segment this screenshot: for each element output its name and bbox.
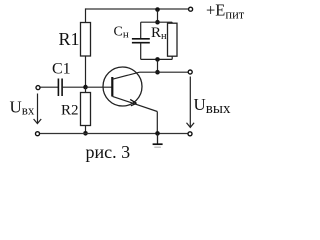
node: base junction bbox=[83, 85, 88, 90]
transistor Q1 base bar bbox=[111, 77, 113, 97]
wire: Cn branch bottom bbox=[140, 43, 142, 60]
wire: C1 to base node bbox=[62, 86, 85, 88]
wire: R2 bottom lead bbox=[85, 126, 87, 134]
svg-text:C1: C1 bbox=[52, 61, 71, 78]
wire: load block top rail bbox=[141, 21, 173, 23]
arrow: Uin voltage bbox=[34, 94, 42, 124]
transistor Q1 emitter lead bbox=[113, 96, 158, 111]
wire: R1 top lead bbox=[85, 8, 87, 22]
wire: load block bottom rail bbox=[141, 58, 173, 60]
wire: Cn branch top bbox=[140, 22, 142, 39]
wire: Rn branch top bbox=[171, 22, 173, 23]
resistor R2 bbox=[81, 93, 91, 126]
wire: input lead to C1 bbox=[40, 86, 58, 88]
wire: R1 bottom lead to base node bbox=[85, 56, 87, 87]
wire: emitter down to ground rail bbox=[156, 112, 158, 134]
node: R2 to ground rail bbox=[83, 131, 88, 136]
wire: Rn branch bottom bbox=[171, 56, 173, 59]
capacitor Cn bbox=[132, 39, 150, 43]
node: load block top bbox=[155, 20, 160, 25]
node: emitter ground junction bbox=[155, 131, 160, 136]
wire: stub from supply rail to load block bbox=[157, 10, 159, 23]
node: supply rail to load block bbox=[155, 7, 160, 12]
terminal: input lower bbox=[36, 132, 40, 136]
terminal: +E supply bbox=[189, 7, 193, 11]
svg-text:рис. 3: рис. 3 bbox=[86, 142, 131, 162]
transistor Q1 collector lead bbox=[113, 72, 140, 79]
wire: base lead bbox=[86, 86, 113, 88]
ground symbol bbox=[153, 133, 163, 147]
svg-text:R2: R2 bbox=[61, 103, 79, 119]
wire: base node to R2 bbox=[85, 87, 87, 93]
node: load block bottom bbox=[155, 57, 160, 62]
terminal: input upper bbox=[36, 86, 40, 90]
terminal: output lower bbox=[188, 132, 192, 136]
transistor Q1 emitter arrow bbox=[130, 99, 136, 105]
resistor R1 bbox=[81, 23, 91, 57]
wire: collector to output terminal bbox=[140, 71, 191, 73]
node: collector output junction bbox=[155, 70, 160, 75]
terminal: output upper bbox=[188, 70, 192, 74]
arrow: Uout voltage bbox=[187, 77, 195, 128]
svg-text:R1: R1 bbox=[59, 29, 80, 49]
wire: ground rail bbox=[40, 133, 189, 135]
wire: load block bottom to collector node bbox=[157, 59, 159, 72]
capacitor C1 bbox=[58, 79, 62, 97]
resistor Rn bbox=[168, 23, 178, 56]
transistor Q1 body circle bbox=[103, 67, 142, 106]
wire: top supply rail bbox=[86, 8, 191, 10]
